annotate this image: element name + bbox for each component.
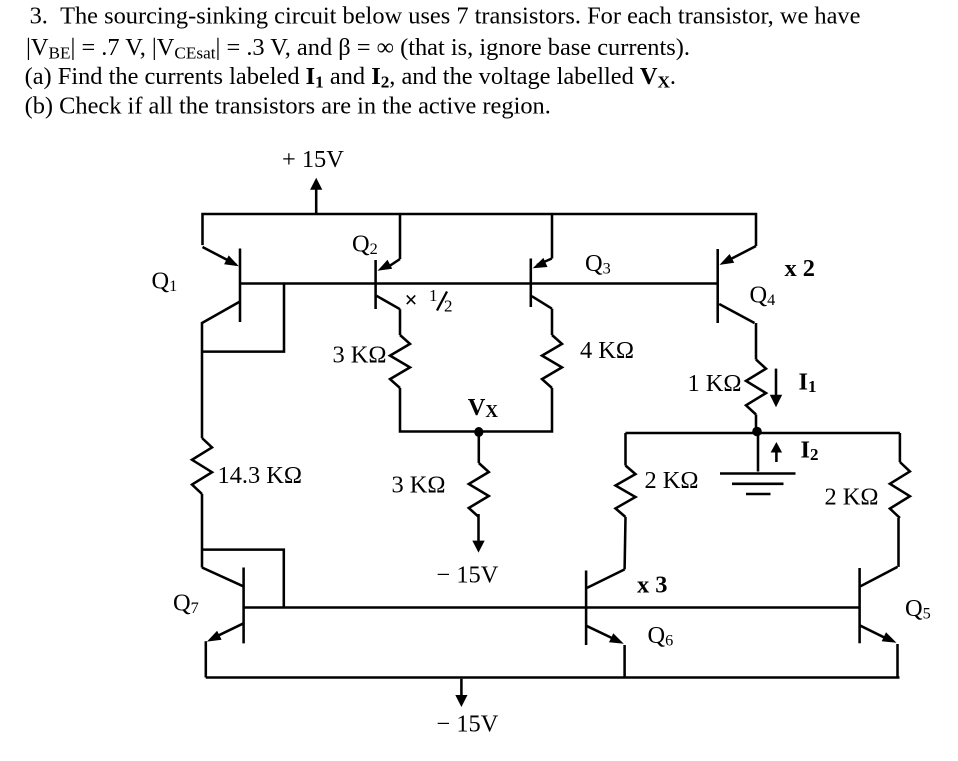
svg-text:1: 1 bbox=[429, 286, 438, 305]
wire 14.3K to Q7 collector bbox=[201, 494, 204, 568]
svg-text:Q5: Q5 bbox=[905, 595, 931, 623]
resistor 2 KOhm (right) bbox=[890, 462, 910, 518]
wire base rail of Q1-Q4 mirror bbox=[240, 282, 718, 285]
wire Q7 base-collector tie bbox=[202, 550, 284, 608]
label Q5 bbox=[905, 595, 931, 623]
svg-text:I2: I2 bbox=[801, 437, 819, 464]
label Q7 bbox=[173, 590, 199, 618]
label 3 KOhm upper bbox=[333, 342, 387, 369]
node VX junction dot bbox=[474, 427, 483, 437]
wire 1K to ground node bbox=[755, 415, 758, 434]
transistor Q7 bbox=[202, 568, 244, 644]
wire Q2 emitter drop bbox=[399, 214, 402, 259]
wire node to 2K middle bbox=[624, 433, 627, 466]
arrow to -15V (bottom rail) bbox=[455, 679, 467, 707]
svg-text:Q1: Q1 bbox=[152, 268, 178, 296]
problem text line 3 bbox=[25, 63, 676, 92]
svg-text:− 15V: − 15V bbox=[437, 562, 499, 589]
transistor Q5 bbox=[860, 567, 898, 643]
node I2 junction dot bbox=[752, 427, 762, 437]
svg-text:(b) Check if all the transisto: (b) Check if all the transistors are in … bbox=[25, 93, 551, 120]
svg-text:3 KΩ: 3 KΩ bbox=[392, 472, 446, 499]
label -15V bottom bbox=[437, 711, 499, 738]
problem text line 4 bbox=[25, 93, 551, 120]
resistor 1 KOhm bbox=[746, 360, 766, 415]
wire Q1 collector to 14.3K bbox=[201, 322, 204, 438]
wire Q1 base-collector tie bbox=[202, 284, 284, 352]
label 3 KOhm lower bbox=[392, 472, 446, 499]
label +15V bbox=[282, 146, 344, 173]
resistor 3 KOhm (Q2 branch) bbox=[390, 335, 410, 388]
label 2 KOhm right bbox=[825, 484, 879, 511]
svg-text:+ 15V: + 15V bbox=[282, 146, 344, 173]
wire 4K to VX node bbox=[480, 388, 552, 432]
svg-text:Q7: Q7 bbox=[173, 590, 199, 618]
label x 2 ratio bbox=[785, 255, 816, 282]
svg-text:(a) Find the currents labeled: (a) Find the currents labeled I1 and I2,… bbox=[25, 63, 676, 92]
svg-text:Q3: Q3 bbox=[585, 250, 611, 278]
svg-text:14.3 KΩ: 14.3 KΩ bbox=[218, 462, 303, 489]
label Q6 bbox=[648, 622, 674, 650]
arrow current I2 bbox=[771, 442, 783, 462]
svg-text:3. The sourcing-sinking circu: 3. The sourcing-sinking circuit below us… bbox=[30, 3, 861, 30]
svg-text:×: × bbox=[405, 288, 418, 313]
label Q1 bbox=[152, 268, 178, 296]
label 1 KOhm bbox=[688, 370, 742, 397]
arrow current I1 bbox=[770, 369, 782, 408]
arrow +15V supply bbox=[310, 178, 322, 215]
svg-text:4 KΩ: 4 KΩ bbox=[580, 337, 634, 364]
arrow to -15V (VX branch) bbox=[472, 514, 484, 553]
transistor Q4 bbox=[718, 246, 756, 323]
wire Q2 collector lead bbox=[399, 309, 402, 335]
wire Q6 emitter drop bbox=[623, 645, 626, 678]
label 4 KOhm bbox=[580, 337, 634, 364]
resistor 14.3 KOhm bbox=[192, 438, 212, 494]
svg-text:Q6: Q6 bbox=[648, 622, 674, 650]
resistor 4 KOhm (Q3 branch) bbox=[542, 335, 562, 388]
wire 2K right to Q5 collector bbox=[897, 518, 900, 567]
label 2 KOhm middle bbox=[645, 467, 699, 494]
label 14.3 KOhm bbox=[218, 462, 303, 489]
transistor Q2 bbox=[376, 259, 400, 309]
svg-text:2 KΩ: 2 KΩ bbox=[825, 484, 879, 511]
resistor 2 KOhm (middle) bbox=[616, 466, 636, 518]
svg-text:VX: VX bbox=[468, 394, 499, 421]
svg-text:|VBE| = .7 V, |VCEsat| = .3 V,: |VBE| = .7 V, |VCEsat| = .3 V, and β = ∞… bbox=[26, 34, 690, 63]
resistor 3 KOhm (VX to -15V) bbox=[469, 463, 489, 517]
label Q2 bbox=[352, 231, 378, 259]
label Q4 bbox=[750, 282, 776, 310]
svg-text:2: 2 bbox=[444, 297, 453, 316]
label -15V (VX branch) bbox=[437, 562, 499, 589]
label VX bbox=[468, 394, 499, 421]
svg-text:Q2: Q2 bbox=[352, 231, 378, 259]
label x 1/2 ratio bbox=[405, 286, 453, 316]
wire node to 2K right bbox=[899, 433, 902, 462]
transistor Q1 bbox=[202, 247, 240, 323]
label x 3 ratio bbox=[637, 572, 668, 599]
wire Q7 emitter drop bbox=[205, 641, 208, 677]
wire Q3 collector lead bbox=[551, 309, 554, 335]
wire +15V top rail bbox=[203, 214, 757, 246]
svg-text:2 KΩ: 2 KΩ bbox=[645, 467, 699, 494]
svg-text:− 15V: − 15V bbox=[437, 711, 499, 738]
svg-text:1 KΩ: 1 KΩ bbox=[688, 370, 742, 397]
svg-text:Q4: Q4 bbox=[750, 282, 776, 310]
wire Q4 collector lead bbox=[755, 323, 758, 360]
label I2 bbox=[801, 437, 819, 464]
wire Q5 emitter drop bbox=[896, 644, 899, 678]
svg-text:x 2: x 2 bbox=[785, 255, 816, 282]
wire 2K middle to Q6 collector bbox=[623, 517, 626, 569]
wire ground node rail bbox=[626, 432, 900, 435]
svg-text:I1: I1 bbox=[799, 369, 817, 396]
label I1 bbox=[799, 369, 817, 396]
transistor Q3 bbox=[531, 258, 552, 309]
wire 3K to VX node bbox=[400, 388, 480, 432]
wire base rail of Q7-Q5 mirror bbox=[244, 606, 860, 609]
wire Q3 emitter drop bbox=[551, 214, 554, 259]
label Q3 bbox=[585, 250, 611, 278]
svg-text:3 KΩ: 3 KΩ bbox=[333, 342, 387, 369]
problem text line 2 bbox=[26, 34, 690, 63]
problem text line 1 bbox=[30, 3, 861, 30]
ground symbol bbox=[720, 433, 796, 494]
wire -15V bottom rail bbox=[206, 676, 900, 679]
transistor Q6 bbox=[586, 569, 625, 645]
svg-text:x 3: x 3 bbox=[637, 572, 668, 599]
wire VX to 3K bbox=[478, 432, 481, 464]
